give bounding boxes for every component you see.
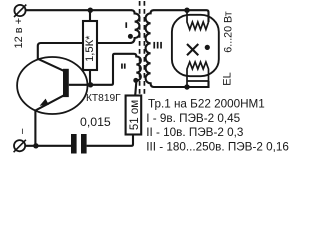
winding I phase dot — [128, 34, 133, 39]
transformer winding I — [130, 10, 140, 43]
transistor VT1 emitter arrow — [40, 99, 49, 106]
label winding II — [121, 64, 126, 69]
svg-text:I - 9в. ПЭВ-2 0,45: I - 9в. ПЭВ-2 0,45 — [146, 112, 240, 125]
terminal X1 plus — [14, 5, 25, 16]
svg-text:EL: EL — [221, 72, 233, 85]
transistor VT1 collector lead — [38, 59, 64, 71]
resistor R1 leads — [89, 10, 91, 85]
label winding I — [125, 22, 127, 28]
terminal X2 minus — [14, 140, 25, 151]
resistor R2 top lead — [135, 82, 136, 96]
label winding III — [153, 42, 162, 49]
wire base — [69, 54, 134, 85]
wire top +12V rail — [26, 9, 132, 11]
svg-text:0,015: 0,015 — [80, 115, 111, 129]
lamp EL envelope — [172, 15, 219, 76]
wire bottom (minus rail, left of capacitor) — [25, 145, 71, 147]
junction node lamp bottom — [184, 84, 189, 89]
svg-text:6...20 Вт: 6...20 Вт — [222, 11, 234, 52]
svg-text:III - 180...250в. ПЭВ-2 0,16: III - 180...250в. ПЭВ-2 0,16 — [146, 140, 289, 153]
lamp bottom filament — [187, 62, 209, 87]
lamp dot mark — [205, 45, 210, 50]
wire collector to winding I bottom — [38, 43, 132, 59]
transformer core — [140, 1, 145, 97]
resistor R1 1,5K body — [83, 21, 97, 70]
junction node lamp top — [184, 8, 189, 13]
transistor VT1 base bar — [63, 69, 69, 97]
transistor VT1 body — [17, 57, 87, 114]
lamp X mark — [187, 44, 198, 55]
resistor R2 51 om body — [126, 96, 142, 135]
lamp top filament — [187, 10, 209, 29]
capacitor C1 plates — [71, 134, 77, 154]
winding II phase dot — [133, 78, 138, 83]
transformer winding II — [134, 54, 141, 82]
transistor VT1 emitter lead — [35, 95, 64, 146]
junction node base / R1 — [88, 82, 93, 87]
junction node emitter / bottom rail — [33, 143, 38, 148]
svg-text:−: − — [17, 128, 29, 134]
wire bottom (capacitor to R2) — [87, 135, 133, 146]
svg-text:12 в +: 12 в + — [13, 18, 25, 49]
svg-text:КТ819Г: КТ819Г — [86, 93, 121, 104]
transformer winding III — [146, 10, 154, 87]
svg-text:II - 10в. ПЭВ-2 0,3: II - 10в. ПЭВ-2 0,3 — [146, 126, 243, 139]
svg-text:51 ом: 51 ом — [129, 100, 141, 130]
svg-text:1,5К*: 1,5К* — [84, 35, 96, 62]
wire winding III top to lamp — [154, 10, 209, 22]
junction node top rail / R1 — [88, 8, 93, 13]
svg-text:Тр.1 на Б22 2000НМ1: Тр.1 на Б22 2000НМ1 — [148, 98, 265, 111]
wire winding III bottom to lamp — [154, 81, 209, 87]
